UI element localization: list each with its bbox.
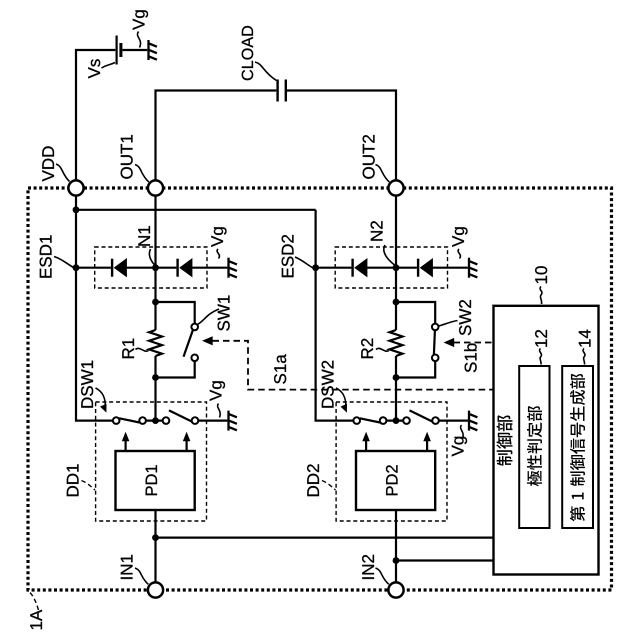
control arrows into DSW1 [126, 440, 187, 451]
wire CLOAD to OUT2 [287, 91, 396, 182]
polarity determination box 12 [519, 366, 549, 528]
label 12 leader [539, 349, 541, 365]
label 1A leader [30, 593, 39, 611]
junction DSW1 center [152, 417, 159, 424]
wire OUT1 to CLOAD [156, 91, 277, 182]
label Vg DSW1 [210, 381, 225, 401]
diode D2a [353, 258, 368, 277]
label ESD1 [40, 235, 52, 277]
label Vg DSW1 leader [218, 404, 221, 418]
label ESD1 leader [54, 257, 74, 268]
terminal OUT1 [148, 180, 163, 195]
controller box 10 [494, 306, 599, 575]
wire battery to ground [123, 49, 148, 51]
junction R2 bottom [393, 374, 400, 381]
label Vg ESD1 leader [217, 249, 219, 259]
wire OUT1 internal vertical [154, 195, 156, 330]
label VDD [42, 146, 54, 181]
junction R2 top [393, 299, 400, 306]
wire VDD to battery [76, 50, 115, 181]
label SW1 [218, 295, 230, 330]
wire DSW2 [387, 420, 468, 422]
label OUT1 [121, 135, 133, 179]
label IN1 [121, 555, 133, 579]
DSW2 dashed box [336, 402, 447, 521]
arrow S1a [202, 336, 213, 345]
label N2 leader [384, 245, 395, 265]
wire PD2 to IN2 [396, 510, 493, 583]
label Vs [88, 59, 100, 78]
wire ESD1 [76, 267, 227, 269]
diode D1a [112, 258, 127, 277]
label 14 [579, 330, 591, 347]
switch SW2 wires [396, 302, 435, 378]
switch DSW2 right blade [410, 410, 433, 421]
label DD2 [307, 464, 319, 496]
label DD1 [67, 464, 79, 496]
label OUT1 leader [135, 165, 149, 183]
label ESD2 [282, 235, 294, 277]
battery Vs [117, 36, 121, 65]
switch SW2 blade (closed) [434, 330, 435, 354]
switch DSW1 left blade [119, 418, 139, 422]
junction rail-ESD2 [312, 264, 319, 271]
capacitor CLOAD [278, 80, 286, 102]
ground Vg (top) [149, 40, 157, 60]
label S1a [274, 354, 286, 383]
ESD1 dashed box [95, 247, 207, 288]
label IN2 leader [376, 568, 389, 584]
label SW2 [459, 300, 471, 335]
label S1b [464, 343, 476, 372]
label CLOAD [242, 26, 253, 80]
label OUT2 [363, 135, 375, 179]
junction VDD-ESD1 [73, 264, 80, 271]
ground Vg ESD2 [469, 258, 477, 278]
label R2 [361, 339, 373, 358]
label VDD leader [56, 164, 70, 182]
label N1 leader [149, 249, 154, 265]
label IN1 leader [135, 568, 148, 584]
label Vg ESD1 [211, 227, 226, 247]
junction VDD rail [73, 206, 80, 213]
power detector PD2 [356, 451, 435, 510]
label DD2 leader [322, 481, 336, 491]
label DD1 leader [82, 481, 96, 491]
wire below R1 [154, 356, 156, 421]
terminal IN2 [388, 582, 403, 597]
DSW1 dashed box [96, 402, 207, 521]
ground Vg DSW1 [229, 411, 237, 431]
terminal OUT2 [388, 180, 403, 195]
resistor R1 [149, 330, 162, 356]
label Vg DSW2 [452, 437, 467, 457]
label Vg ESD2 leader [458, 249, 460, 259]
junction IN2 [393, 557, 400, 564]
label 10 leader [540, 287, 542, 305]
label R2 leader [376, 348, 389, 351]
junction R1 bottom [152, 374, 159, 381]
diode D2b [418, 258, 433, 277]
switch SW2 contacts [432, 324, 439, 331]
label 12 [535, 330, 547, 347]
label PD2 [386, 465, 398, 495]
label PD1 [146, 465, 157, 495]
label N1 [138, 226, 150, 246]
control arrows into DSW2 [366, 440, 427, 451]
node N1 junction [152, 264, 159, 271]
arrow S1b [444, 338, 455, 347]
label Vg ESD2 [452, 227, 467, 247]
label SW1 leader [198, 309, 220, 325]
label 第1制御信号生成部 [570, 374, 585, 522]
wire OUT2 internal vertical [395, 195, 397, 330]
switch SW1 wires [156, 302, 195, 378]
junction R1 top [152, 299, 159, 306]
ground Vg ESD1 [229, 258, 237, 278]
junction DSW2 center [393, 417, 400, 424]
label SW2 leader [439, 321, 458, 327]
switch SW1 contacts [191, 324, 198, 331]
label DSW1 leader arrow [96, 388, 106, 407]
DSW2 contacts [353, 417, 360, 424]
label CLOAD leader [255, 62, 277, 81]
label Vg top [133, 10, 148, 30]
wire VDD rail to channel 2 [76, 210, 353, 421]
control line S1a dashed [213, 341, 494, 390]
ESD2 dashed box [335, 247, 447, 288]
switch DSW2 left blade [360, 418, 380, 422]
label 極性判定部 [527, 406, 542, 486]
label DSW1 [81, 361, 93, 408]
wire VDD vertical rail ch1 [76, 195, 113, 421]
IC boundary box 1A [28, 188, 612, 590]
DSW1 contacts [113, 417, 120, 424]
wire PD1 to IN1 [156, 510, 494, 583]
wire DSW1 [146, 420, 227, 422]
wire below R2 [395, 356, 397, 421]
label R1 leader [136, 348, 149, 351]
label 制御部 (control unit) [497, 415, 513, 465]
label DSW2 [322, 361, 334, 408]
control line S1b dashed [454, 342, 494, 344]
label Vg top leader [137, 32, 140, 48]
label 14 leader [583, 349, 585, 365]
label Vg DSW2 leader [461, 425, 464, 439]
label DSW2 leader arrow [336, 388, 346, 407]
label Vs leader [102, 63, 116, 69]
terminal IN1 [148, 582, 163, 597]
switch SW1 blade (open) [184, 330, 193, 357]
terminal VDD [68, 180, 83, 195]
label 1A [30, 610, 42, 629]
label OUT2 leader [376, 165, 390, 183]
ground Vg DSW2 [469, 411, 477, 431]
label N2 [371, 221, 383, 240]
resistor R2 [390, 330, 403, 356]
diode D1b [178, 258, 193, 277]
wire ESD2 [317, 267, 468, 269]
label 10 [535, 266, 547, 283]
signal generator box 14 [562, 366, 593, 528]
node N2 junction [393, 264, 400, 271]
label ESD2 leader [295, 257, 313, 268]
label R1 [122, 339, 134, 359]
power detector PD1 [116, 451, 195, 510]
label IN2 [362, 555, 374, 579]
switch DSW1 right blade [169, 410, 192, 421]
junction IN1 [152, 534, 159, 541]
